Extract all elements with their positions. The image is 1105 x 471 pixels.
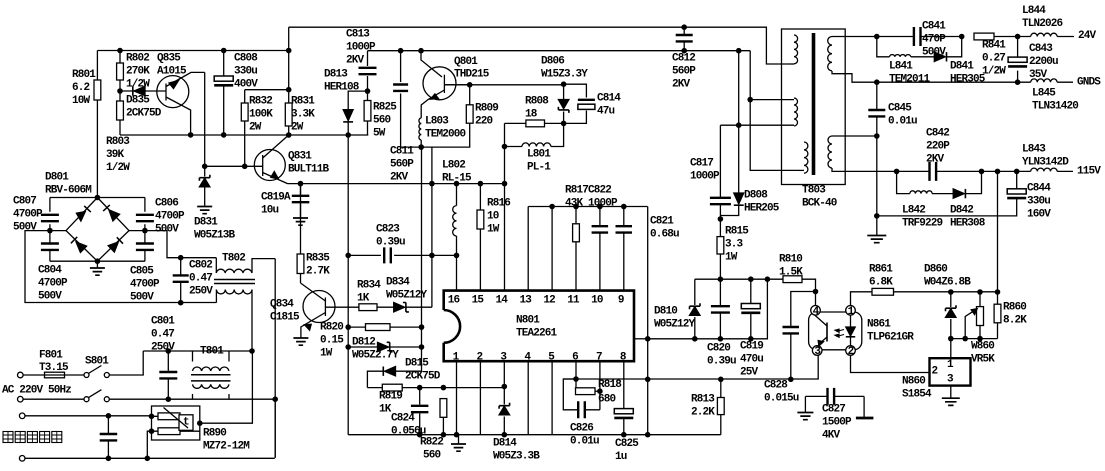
svg-text:1u: 1u xyxy=(615,451,627,463)
svg-text:R819: R819 xyxy=(379,391,402,403)
resistor R801 xyxy=(96,51,98,198)
optocoupler N861 pin 4 xyxy=(811,306,821,316)
wire D813 to rail xyxy=(347,122,349,135)
zener D810 xyxy=(690,303,701,309)
svg-text:R832: R832 xyxy=(249,96,272,108)
svg-text:C802: C802 xyxy=(189,260,212,272)
optocoupler N861 pin 2 xyxy=(846,346,856,356)
terminal AC line2 xyxy=(18,396,24,402)
junction R816 top xyxy=(478,181,484,187)
transformer T801 core xyxy=(191,375,231,381)
wire C808 column xyxy=(223,51,225,135)
svg-text:L842: L842 xyxy=(902,205,925,217)
junction C824 bottom xyxy=(417,432,423,438)
thermistor R890 box xyxy=(152,406,200,440)
wire R808 links xyxy=(505,122,564,124)
svg-text:4700P: 4700P xyxy=(13,209,43,221)
capacitor C806 xyxy=(136,215,154,221)
junction C842 right xyxy=(979,169,985,175)
junction C801 bottom xyxy=(166,396,172,402)
svg-text:3.3K: 3.3K xyxy=(291,109,315,121)
svg-text:220: 220 xyxy=(475,116,493,128)
svg-text:2: 2 xyxy=(477,351,483,363)
svg-text:C841: C841 xyxy=(922,21,946,33)
thermistor R890 slash xyxy=(164,408,189,429)
wire C827 right stub xyxy=(863,396,865,417)
transformer T803 aux winding w3 xyxy=(804,142,808,173)
svg-text:1K: 1K xyxy=(379,404,392,416)
svg-text:TLN31420: TLN31420 xyxy=(1032,101,1078,113)
svg-text:N861: N861 xyxy=(867,319,891,331)
wire C814 branch xyxy=(564,84,587,123)
svg-text:AC 220V 50Hz: AC 220V 50Hz xyxy=(2,385,71,397)
wire T801 top stubs xyxy=(193,351,230,362)
junction demag cap top xyxy=(106,413,112,419)
svg-text:10: 10 xyxy=(487,211,499,223)
junction x738 top xyxy=(736,48,742,54)
resistor R803 xyxy=(119,91,121,135)
wire R834 to D834 xyxy=(377,306,394,308)
svg-text:R820: R820 xyxy=(320,322,343,334)
svg-text:400V: 400V xyxy=(234,79,258,91)
wire w1 entry xyxy=(789,63,794,65)
junction Q801 base xyxy=(418,48,424,54)
svg-text:160V: 160V xyxy=(1027,209,1051,221)
junction 115V sense xyxy=(995,169,1001,175)
svg-text:9: 9 xyxy=(618,295,624,307)
svg-text:C825: C825 xyxy=(615,438,639,450)
junction C813 bottom xyxy=(365,88,371,94)
wire y147 node xyxy=(401,123,470,147)
svg-text:330u: 330u xyxy=(234,66,257,78)
label demag coil text boxes xyxy=(3,432,13,443)
potentiometer W860 xyxy=(977,307,984,326)
wire D831 column xyxy=(204,166,206,206)
svg-text:R815: R815 xyxy=(725,226,749,238)
wire C823 links xyxy=(348,254,456,256)
junction C824 top xyxy=(417,385,423,391)
junction D860 bottom xyxy=(948,336,954,342)
wire AC stub right xyxy=(129,231,216,258)
svg-text:R818: R818 xyxy=(598,379,622,391)
wire x648 column xyxy=(647,207,649,380)
svg-text:TEM2011: TEM2011 xyxy=(889,74,931,86)
chassis bar at C827 xyxy=(856,417,874,420)
svg-text:3.3: 3.3 xyxy=(725,239,744,251)
inductor L803 xyxy=(419,118,421,140)
optocoupler N861 LED xyxy=(850,315,852,327)
wire x275 column xyxy=(274,259,276,458)
wire D835 to Q835 base xyxy=(120,90,166,92)
svg-text:R825: R825 xyxy=(373,102,397,114)
capacitor C808 xyxy=(214,76,233,81)
wire pin2 lead xyxy=(479,361,481,435)
junction D812 x421 xyxy=(419,344,425,350)
svg-text:C824: C824 xyxy=(391,413,415,425)
terminal AC line1 xyxy=(18,372,24,378)
svg-text:C821: C821 xyxy=(650,216,674,228)
wire x348 bus xyxy=(347,135,349,435)
svg-text:C844: C844 xyxy=(1027,183,1051,195)
wire bridge top rail xyxy=(50,197,145,199)
svg-text:2.2K: 2.2K xyxy=(691,407,715,419)
wire R890 to T801 node xyxy=(200,351,253,423)
wire C828 top link xyxy=(791,292,816,328)
wire pin8 lead xyxy=(623,361,625,408)
junction L802 bottom xyxy=(454,253,460,259)
svg-text:C808: C808 xyxy=(234,53,258,65)
junction D806 top xyxy=(561,81,567,87)
wire pin3 D814 column xyxy=(503,387,505,435)
resistor R818 xyxy=(576,388,596,395)
thermistor R890 element1 xyxy=(158,413,180,420)
wire C819A column xyxy=(300,184,302,218)
svg-text:R822: R822 xyxy=(420,437,443,449)
wire Q835 emitter down xyxy=(204,72,206,166)
fuse F801 xyxy=(45,372,65,378)
junction C801 top xyxy=(166,348,172,354)
resistor R860 xyxy=(997,292,999,339)
capacitor C822a xyxy=(592,226,609,232)
svg-text:D831: D831 xyxy=(194,217,218,229)
wire collector clamp xyxy=(444,84,563,86)
junction R818 right xyxy=(597,388,603,394)
capacitor C804 xyxy=(41,244,59,250)
svg-text:C842: C842 xyxy=(926,128,949,140)
svg-text:1000P: 1000P xyxy=(690,171,720,183)
wire N860 pin1 lead xyxy=(950,339,952,359)
wire C824 column xyxy=(419,388,421,435)
switch S801 blade1 xyxy=(88,366,101,374)
capacitor C828 xyxy=(783,327,800,333)
capacitor C811 xyxy=(393,85,408,91)
resistor R834 xyxy=(359,304,377,311)
svg-text:C806: C806 xyxy=(155,198,178,210)
junction C844 top xyxy=(1014,169,1020,175)
wire L803 bottom lead xyxy=(420,140,422,147)
svg-text:8.2K: 8.2K xyxy=(1003,315,1027,327)
resistor R820 xyxy=(366,324,391,331)
svg-text:2: 2 xyxy=(932,365,938,377)
svg-text:270K: 270K xyxy=(126,66,150,78)
svg-text:S1854: S1854 xyxy=(902,389,932,401)
svg-text:VR5K: VR5K xyxy=(971,354,995,366)
capacitor C807 xyxy=(41,215,59,221)
svg-text:C843: C843 xyxy=(1029,43,1053,55)
svg-text:24V: 24V xyxy=(1078,30,1097,42)
wire B+ rail right xyxy=(368,50,751,52)
junction C843 top xyxy=(1015,34,1021,40)
capacitor demag xyxy=(100,434,118,440)
resistor R832 xyxy=(244,90,246,167)
junction R808 D806 C814 xyxy=(561,121,567,127)
svg-text:N860: N860 xyxy=(902,376,925,388)
wire D810 column xyxy=(694,279,696,339)
svg-text:0.27: 0.27 xyxy=(982,53,1005,65)
junction R890 tap1 xyxy=(149,414,155,420)
capacitor C826 xyxy=(578,401,585,418)
svg-text:HER308: HER308 xyxy=(950,218,986,230)
inductor L842 xyxy=(910,191,932,194)
wire T802 top exit xyxy=(252,259,275,273)
svg-text:R835: R835 xyxy=(306,253,330,265)
wire regulation rail y292 xyxy=(894,291,998,293)
svg-text:R816: R816 xyxy=(487,198,510,210)
wire y339 rail xyxy=(648,279,768,339)
transistor Q834 xyxy=(303,291,335,323)
resistor R835 xyxy=(300,184,302,283)
svg-text:15: 15 xyxy=(472,295,485,307)
wire C813 column xyxy=(367,51,369,91)
svg-text:1W: 1W xyxy=(487,224,500,236)
wire C822a column xyxy=(599,207,601,291)
wire R817C822 rail xyxy=(528,206,648,208)
svg-text:C826: C826 xyxy=(570,423,593,435)
wire T802 bottom left lead xyxy=(215,290,217,303)
capacitor C820 xyxy=(711,306,730,312)
wire D812 links xyxy=(348,346,421,348)
svg-text:Q835: Q835 xyxy=(157,53,181,65)
svg-text:C817: C817 xyxy=(690,158,713,170)
junction opto pin4 node xyxy=(813,289,819,295)
svg-text:L802: L802 xyxy=(442,160,465,172)
junction bridge top vertex xyxy=(95,195,101,201)
wire N860 pin3 ground xyxy=(950,386,952,398)
svg-text:330u: 330u xyxy=(1027,196,1050,208)
svg-text:2.7K: 2.7K xyxy=(306,266,330,278)
svg-text:T802: T802 xyxy=(222,253,245,265)
terminal demag line4 xyxy=(19,456,25,462)
transformer T803 primary winding w1 xyxy=(794,35,798,64)
thermistor R890 element2 xyxy=(158,428,180,435)
junction demag cap bottom xyxy=(106,456,112,462)
capacitor C802 xyxy=(173,275,189,281)
junction C819A R835 xyxy=(298,181,304,187)
wire GNDS rail xyxy=(832,71,1073,82)
bridge rectifier D801 diamond xyxy=(66,198,129,262)
wire C825 bottom lead xyxy=(623,418,625,435)
wire R810 to opto xyxy=(802,279,816,305)
svg-text:T803: T803 xyxy=(802,185,826,197)
junction pin12 rail xyxy=(549,204,555,210)
svg-text:16: 16 xyxy=(448,295,460,307)
junction L802 top xyxy=(454,181,460,187)
junction pin3 R819 xyxy=(502,384,508,390)
wire C801 column xyxy=(167,351,169,399)
wire feedback low rail y379 xyxy=(563,355,818,379)
junction R802 top xyxy=(117,48,123,54)
wire x738 link xyxy=(738,51,740,126)
svg-text:10: 10 xyxy=(591,295,603,307)
svg-text:D813: D813 xyxy=(324,69,348,81)
svg-text:2CK75D: 2CK75D xyxy=(405,371,441,383)
svg-text:C812: C812 xyxy=(672,53,695,65)
svg-text:1000P: 1000P xyxy=(346,42,376,54)
svg-text:6.2: 6.2 xyxy=(72,82,90,94)
svg-text:2W: 2W xyxy=(249,122,262,134)
svg-text:D814: D814 xyxy=(493,438,517,450)
svg-text:C819A: C819A xyxy=(261,192,291,204)
svg-text:7: 7 xyxy=(596,351,602,363)
svg-text:Q834: Q834 xyxy=(270,299,294,311)
svg-text:W860: W860 xyxy=(971,341,994,353)
svg-text:HER305: HER305 xyxy=(950,74,986,86)
capacitor C841 xyxy=(914,27,921,46)
IC N801 TEA2261 body xyxy=(444,291,634,362)
svg-text:D834: D834 xyxy=(386,277,410,289)
switch S801 blade2 xyxy=(88,390,101,398)
svg-text:1K: 1K xyxy=(357,293,370,305)
wire C802 column xyxy=(180,258,182,303)
junction D813 rail xyxy=(345,132,351,138)
wire L841 D841 loop xyxy=(877,37,962,57)
thermistor R890 inner links xyxy=(152,416,200,431)
wire 115V rail xyxy=(832,168,1073,171)
bridge diode lower-left xyxy=(76,242,87,253)
junction R809 top xyxy=(467,82,473,88)
junction C812 top xyxy=(681,24,687,30)
capacitor C844 xyxy=(1007,189,1026,194)
svg-text:L841: L841 xyxy=(889,61,913,73)
resistor R809 xyxy=(469,85,471,105)
wire C822b column xyxy=(623,207,625,291)
inductor L845 xyxy=(1031,79,1057,82)
wire R890 lower left link xyxy=(147,431,151,458)
junction R817 rail xyxy=(573,204,579,210)
wire demag line3 xyxy=(25,415,152,417)
junction x289 y50 xyxy=(286,48,292,54)
junction R802 R803 D835 xyxy=(117,88,123,94)
wire D806 column xyxy=(563,84,565,123)
svg-text:470P: 470P xyxy=(922,34,946,46)
IC N801 notch xyxy=(444,310,460,343)
svg-text:R808: R808 xyxy=(525,96,549,108)
svg-text:Q831: Q831 xyxy=(288,151,312,163)
svg-text:L801: L801 xyxy=(527,149,551,161)
svg-text:C845: C845 xyxy=(888,103,912,115)
svg-text:0.47: 0.47 xyxy=(151,329,174,341)
svg-text:W05Z2.7Y: W05Z2.7Y xyxy=(352,350,399,362)
svg-text:D841: D841 xyxy=(950,61,974,73)
ground below bridge xyxy=(90,268,105,275)
inductor L844 xyxy=(1031,33,1057,36)
svg-text:43K: 43K xyxy=(565,198,584,210)
transformer T803 primary winding w2 xyxy=(794,98,798,126)
wire D860 column xyxy=(950,292,952,339)
svg-text:C804: C804 xyxy=(38,265,62,277)
svg-text:1W: 1W xyxy=(320,348,333,360)
transformer T803 core xyxy=(812,33,816,175)
junction x648 y339 xyxy=(645,336,651,342)
svg-text:BULT11B: BULT11B xyxy=(288,164,330,176)
switch S801 pole1 b xyxy=(104,373,109,378)
capacitor C817 xyxy=(710,198,731,204)
capacitor C825 xyxy=(614,409,633,414)
junction pin14 rail xyxy=(502,181,508,187)
svg-text:14: 14 xyxy=(496,295,509,307)
wire C819 column xyxy=(750,279,752,339)
wire pin12 lead xyxy=(551,207,553,291)
junction C822a rail xyxy=(597,204,603,210)
wire AC stub left xyxy=(25,231,216,303)
wire Q834 base to R834 xyxy=(325,306,359,308)
junction R831 bottom xyxy=(286,132,292,138)
transistor Q831 xyxy=(254,150,285,181)
junction C808 top xyxy=(221,48,227,54)
optocoupler N861 light arrows xyxy=(837,330,845,337)
junction D860 top xyxy=(948,289,954,295)
capacitor C813 xyxy=(359,68,377,74)
capacitor C801 xyxy=(159,372,177,378)
svg-text:6: 6 xyxy=(572,351,578,363)
junction w2 top xyxy=(747,97,753,103)
svg-text:W15Z3.3Y: W15Z3.3Y xyxy=(541,69,588,81)
svg-text:6.8K: 6.8K xyxy=(869,277,893,289)
junction C844 return xyxy=(874,213,880,219)
resistor R816 xyxy=(479,184,481,291)
wire pin4 lead xyxy=(527,361,529,435)
transformer T803 xyxy=(782,29,846,185)
zener D814 xyxy=(499,403,510,409)
wire w3 entry xyxy=(799,169,804,171)
junction C828 bottom xyxy=(788,377,794,383)
junction R813 top xyxy=(718,377,724,383)
wire W860 wiper xyxy=(965,311,974,339)
junction wiper bottom xyxy=(962,336,968,342)
junction D831 node xyxy=(202,164,208,170)
zener D812 xyxy=(378,342,389,351)
resistor R810 xyxy=(783,276,802,283)
svg-text:C814: C814 xyxy=(597,93,621,105)
svg-text:C820: C820 xyxy=(707,343,730,355)
junction R820 left xyxy=(345,324,351,330)
diode D815 xyxy=(385,367,396,376)
svg-text:R813: R813 xyxy=(691,394,715,406)
bridge diode lower-right xyxy=(108,242,118,252)
svg-text:L803: L803 xyxy=(425,116,449,128)
wire D813 branch xyxy=(348,91,367,110)
svg-text:R817: R817 xyxy=(565,185,588,197)
svg-text:25V: 25V xyxy=(740,367,759,379)
bridge diode upper-left xyxy=(76,212,85,222)
svg-text:470u: 470u xyxy=(740,354,763,366)
svg-text:2KV: 2KV xyxy=(390,172,409,184)
svg-text:R890: R890 xyxy=(203,428,226,440)
transformer T803 secondary winding B xyxy=(828,136,832,168)
junction R820 right xyxy=(419,324,425,330)
junction R832 base node xyxy=(242,164,248,170)
wire L801 links xyxy=(505,123,564,146)
junction C843 bottom xyxy=(1015,79,1021,85)
ground at IC bus xyxy=(451,444,466,451)
wire opto pin1 link xyxy=(851,292,873,306)
transistor Q835 xyxy=(157,76,189,108)
inductor L843 xyxy=(1031,168,1057,171)
wire C843 column xyxy=(1017,37,1019,83)
capacitor C822b xyxy=(616,226,633,232)
svg-text:W05Z13B: W05Z13B xyxy=(194,230,236,242)
svg-text:500V: 500V xyxy=(38,291,62,303)
svg-text:0.68u: 0.68u xyxy=(650,229,679,241)
capacitor C843 xyxy=(1008,57,1027,62)
wire C827 ground stub xyxy=(804,396,806,412)
junction R860 top xyxy=(995,289,1001,295)
wire T802 bottom right lead xyxy=(251,290,253,352)
svg-text:R810: R810 xyxy=(779,254,802,266)
svg-text:L845: L845 xyxy=(1032,88,1056,100)
junction pin6 loop xyxy=(573,376,579,382)
svg-text:2KV: 2KV xyxy=(672,79,691,91)
